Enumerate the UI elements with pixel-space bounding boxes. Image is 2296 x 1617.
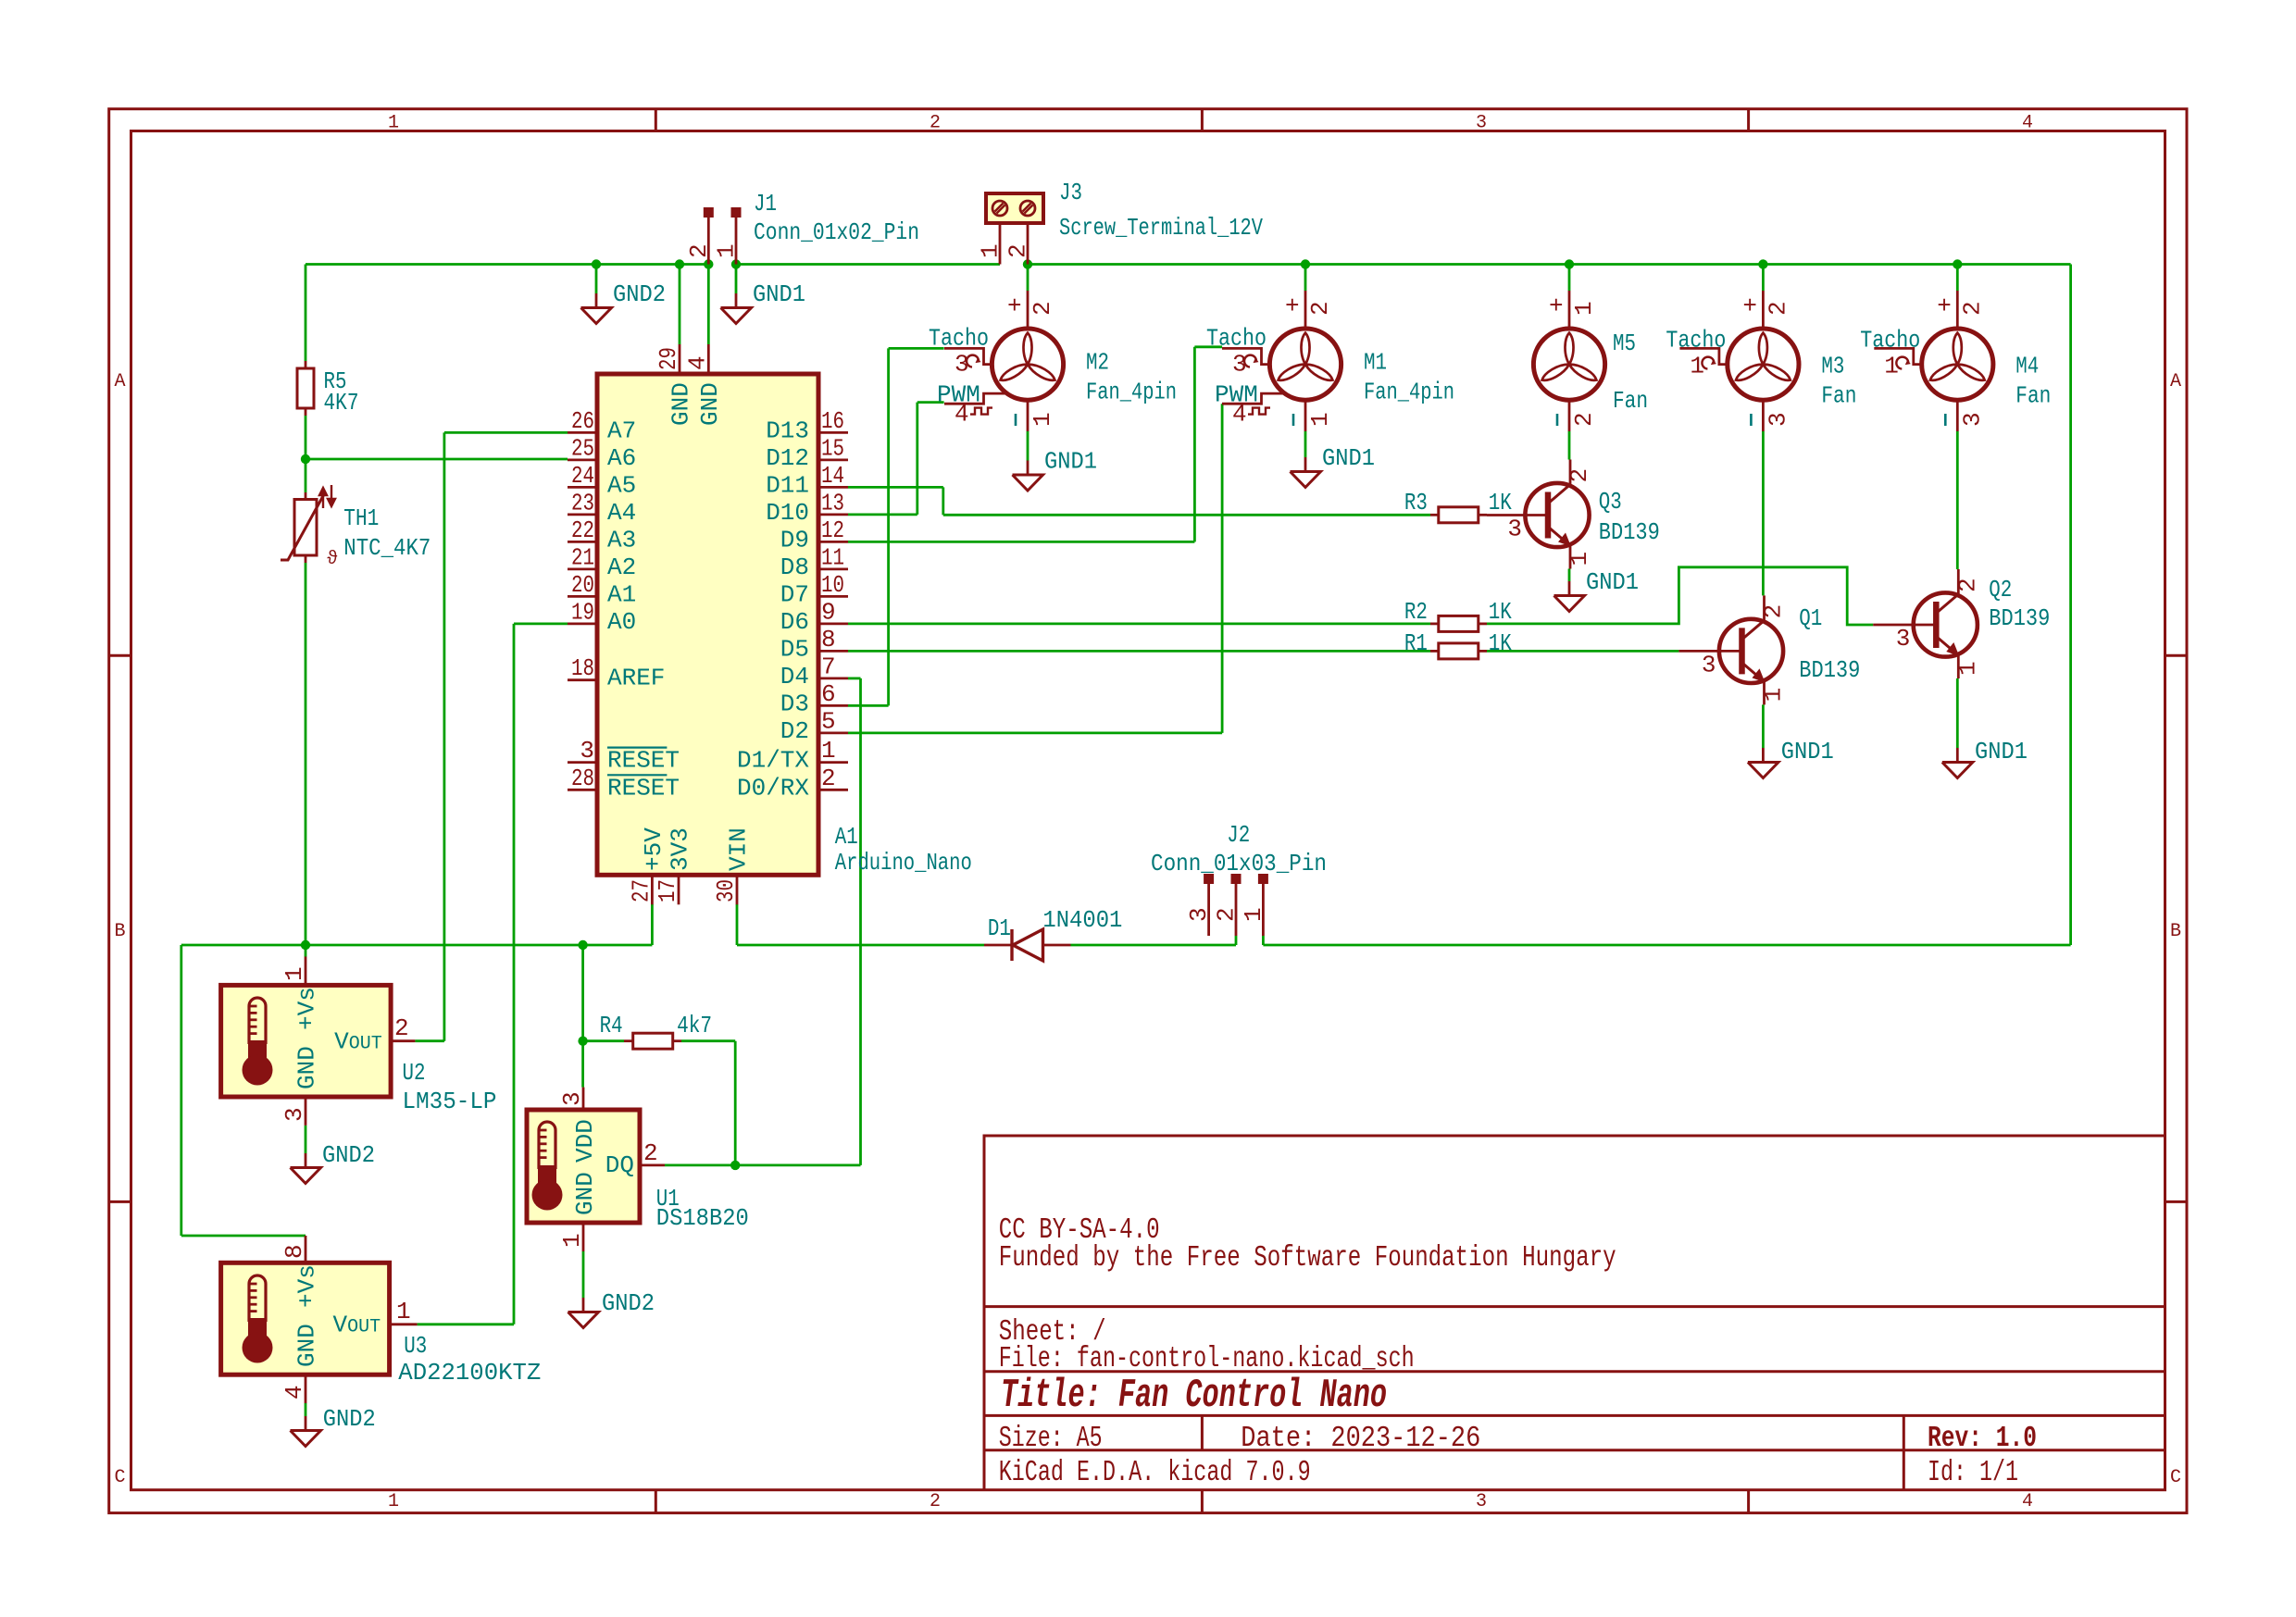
wire Q3 emitter to GND1 bbox=[1568, 569, 1571, 582]
svg-text:28: 28 bbox=[571, 765, 594, 792]
wire D6 to R2 bbox=[848, 623, 1430, 626]
svg-text:BD139: BD139 bbox=[1799, 656, 1860, 684]
power symbol GND1 bbox=[1568, 581, 1571, 596]
wire bus to fan M1 plus bbox=[1304, 265, 1307, 292]
wire U2 +Vs stub bbox=[305, 945, 307, 957]
wire D1 to VIN bbox=[737, 944, 984, 947]
arduino pin 18 AREF bbox=[568, 678, 597, 681]
junction GND1 bus at J1 pin1 bbox=[731, 259, 741, 268]
wire bus to Arduino pin29 bbox=[679, 265, 681, 345]
sheet border outer frame bbox=[109, 109, 2187, 1513]
svg-text:13: 13 bbox=[821, 489, 844, 516]
fan M1 tacho pin bbox=[1222, 348, 1269, 364]
fan M2 tacho pin bbox=[944, 348, 992, 364]
arduino pin 4 GND bbox=[707, 344, 710, 374]
resistor R2 1K bbox=[1430, 623, 1439, 626]
svg-text:DS18B20: DS18B20 bbox=[656, 1204, 749, 1232]
svg-text:1: 1 bbox=[388, 1491, 399, 1512]
svg-text:A4: A4 bbox=[607, 499, 636, 527]
svg-text:M3: M3 bbox=[1821, 353, 1844, 380]
svg-text:3: 3 bbox=[1896, 625, 1911, 653]
svg-text:A1: A1 bbox=[607, 580, 636, 608]
wire bus to fan M4 plus bbox=[1956, 265, 1959, 292]
svg-text:GND2: GND2 bbox=[323, 1405, 376, 1433]
sensor U1 thermometer icon bbox=[539, 1122, 555, 1169]
svg-text:D8: D8 bbox=[780, 554, 809, 581]
resistor R5 bbox=[305, 361, 307, 368]
svg-text:8: 8 bbox=[281, 1244, 308, 1259]
wire Q2 emitter to GND1 bbox=[1956, 678, 1959, 748]
power symbol GND1 bbox=[1956, 748, 1959, 763]
svg-text:A6: A6 bbox=[607, 444, 636, 472]
svg-text:GND1: GND1 bbox=[1586, 568, 1639, 596]
wire GND1 drop from bus bbox=[735, 265, 738, 294]
svg-text:3: 3 bbox=[1702, 651, 1716, 678]
sensor U2 LM35-LP body bbox=[221, 985, 392, 1097]
junction 12V bus at M3 bbox=[1758, 259, 1767, 268]
wire D11 to R3 bbox=[848, 486, 943, 489]
junction +5V at R4 bbox=[578, 940, 587, 950]
svg-text:J1: J1 bbox=[754, 190, 777, 218]
svg-text:7: 7 bbox=[821, 653, 836, 680]
svg-text:16: 16 bbox=[821, 407, 844, 435]
svg-text:2: 2 bbox=[1958, 301, 1986, 316]
svg-text:1: 1 bbox=[388, 113, 399, 134]
svg-text:+: + bbox=[1742, 292, 1757, 320]
svg-text:1: 1 bbox=[821, 737, 836, 765]
svg-text:+: + bbox=[1007, 292, 1022, 320]
svg-text:A2: A2 bbox=[607, 554, 636, 581]
svg-text:Fan_4pin: Fan_4pin bbox=[1364, 379, 1454, 406]
wire U3 VOUT to A0 bbox=[418, 1323, 514, 1325]
arduino pin 3 RESET bbox=[568, 761, 597, 764]
svg-text:ϑ: ϑ bbox=[327, 549, 338, 570]
svg-text:GND: GND bbox=[696, 382, 724, 426]
svg-text:21: 21 bbox=[571, 543, 594, 571]
wire M5 minus to Q3 collector bbox=[1568, 431, 1571, 460]
svg-text:1K: 1K bbox=[1489, 629, 1512, 657]
svg-text:2: 2 bbox=[394, 1014, 409, 1042]
junction 12V bus at M1 bbox=[1301, 259, 1310, 268]
svg-text:D12: D12 bbox=[766, 444, 809, 472]
svg-text:+: + bbox=[1285, 292, 1300, 320]
title block frame bbox=[984, 1136, 2165, 1490]
wire D3 to M2 Tacho bbox=[848, 704, 889, 707]
svg-text:Size: A5: Size: A5 bbox=[999, 1423, 1103, 1455]
svg-text:3: 3 bbox=[281, 1107, 308, 1122]
wire R4 right to DQ bbox=[681, 1039, 735, 1042]
svg-text:File: fan-control-nano.kicad_s: File: fan-control-nano.kicad_sch bbox=[999, 1343, 1415, 1375]
power symbol GND1 bbox=[735, 293, 738, 308]
svg-text:VIN: VIN bbox=[725, 827, 753, 871]
arduino pin 6 D3 bbox=[818, 704, 848, 707]
wire M1 minus to GND1 bbox=[1304, 431, 1307, 457]
svg-text:Fan_4pin: Fan_4pin bbox=[1086, 379, 1177, 406]
fan M1 pwm pin bbox=[1222, 393, 1285, 404]
resistor R4 4k7 bbox=[624, 1039, 632, 1042]
fan M3 tacho pin bbox=[1679, 348, 1727, 364]
svg-text:14: 14 bbox=[821, 462, 844, 490]
wire GND1 bus segment bbox=[736, 263, 1000, 266]
svg-text:2: 2 bbox=[821, 765, 836, 792]
svg-text:NTC_4K7: NTC_4K7 bbox=[343, 534, 430, 562]
power symbol GND1 bbox=[1027, 461, 1029, 476]
sensor U3 AD22100KTZ body bbox=[221, 1263, 390, 1374]
svg-text:J2: J2 bbox=[1227, 821, 1250, 849]
wire node to A6 bbox=[306, 458, 568, 461]
thermistor TH1 bbox=[305, 492, 307, 500]
junction DQ net bbox=[730, 1161, 740, 1170]
svg-text:U2: U2 bbox=[403, 1059, 426, 1087]
arduino pin 5 D2 bbox=[818, 732, 848, 735]
svg-text:B: B bbox=[2170, 921, 2181, 942]
wire U3 GND to GND2 bbox=[305, 1403, 307, 1416]
svg-text:1: 1 bbox=[558, 1233, 586, 1248]
wire D5 to R1 bbox=[848, 650, 1430, 653]
resistor R1 1K bbox=[1430, 650, 1439, 653]
svg-text:25: 25 bbox=[571, 434, 594, 462]
fan M4 tacho pin bbox=[1874, 348, 1921, 364]
junction GND2 bus at J1 pin2 bbox=[704, 259, 713, 268]
wire M2 minus to GND1 bbox=[1027, 431, 1029, 461]
svg-text:12: 12 bbox=[821, 516, 844, 544]
svg-text:Title: Fan Control Nano: Title: Fan Control Nano bbox=[1001, 1373, 1387, 1419]
connector J2 bbox=[1204, 874, 1214, 884]
svg-text:1: 1 bbox=[1953, 661, 1981, 676]
svg-text:M2: M2 bbox=[1086, 349, 1109, 377]
power symbol GND1 bbox=[1304, 457, 1307, 472]
svg-text:24: 24 bbox=[571, 462, 594, 490]
svg-text:GND2: GND2 bbox=[613, 280, 666, 308]
svg-text:Tacho: Tacho bbox=[1860, 327, 1920, 354]
svg-text:2: 2 bbox=[643, 1139, 658, 1167]
svg-text:1: 1 bbox=[1240, 907, 1267, 922]
fan M5 Fan bbox=[1533, 329, 1604, 400]
svg-text:Screw_Terminal_12V: Screw_Terminal_12V bbox=[1059, 214, 1263, 242]
svg-text:GND: GND bbox=[668, 382, 695, 426]
svg-text:A: A bbox=[2170, 371, 2181, 392]
svg-text:M1: M1 bbox=[1364, 349, 1387, 377]
svg-text:30: 30 bbox=[712, 879, 740, 902]
junction 12V bus at J3 pin2 bbox=[1023, 259, 1032, 268]
svg-text:Rev: 1.0: Rev: 1.0 bbox=[1928, 1423, 2037, 1455]
svg-text:8: 8 bbox=[821, 626, 836, 653]
svg-text:GND: GND bbox=[293, 1046, 321, 1089]
svg-text:3: 3 bbox=[1507, 516, 1522, 543]
svg-text:Fan: Fan bbox=[1613, 387, 1648, 415]
svg-text:11: 11 bbox=[821, 543, 844, 571]
svg-text:Id: 1/1: Id: 1/1 bbox=[1928, 1457, 2018, 1489]
power symbol GND1 bbox=[1762, 748, 1765, 763]
svg-text:R2: R2 bbox=[1404, 598, 1428, 626]
svg-text:BD139: BD139 bbox=[1599, 518, 1660, 546]
svg-text:Q2: Q2 bbox=[1989, 576, 2012, 603]
svg-text:1: 1 bbox=[1566, 552, 1593, 566]
svg-text:D2: D2 bbox=[780, 717, 809, 745]
wire R1 to Q1 base bbox=[1487, 650, 1678, 653]
wire bus to fan M5 plus bbox=[1568, 265, 1571, 292]
svg-text:2: 2 bbox=[1213, 907, 1241, 922]
svg-text:2: 2 bbox=[1764, 301, 1791, 316]
svg-text:Fan: Fan bbox=[1821, 382, 1856, 410]
svg-text:D1: D1 bbox=[988, 914, 1011, 942]
junction GND2 bus at GND2 symbol bbox=[592, 259, 601, 268]
junction GND2 bus at pin29 bbox=[675, 259, 684, 268]
svg-text:D3: D3 bbox=[780, 690, 809, 717]
arduino pin 28 RESET bbox=[568, 789, 597, 791]
svg-text:DQ: DQ bbox=[605, 1151, 634, 1179]
arduino pin 7 D4 bbox=[818, 678, 848, 680]
arduino pin 29 GND bbox=[679, 344, 681, 374]
junction 12V bus at M5 bbox=[1565, 259, 1574, 268]
arduino pin 10 D7 bbox=[818, 595, 848, 598]
svg-text:D7: D7 bbox=[780, 580, 809, 608]
wire +5V to U1 VDD bbox=[581, 1041, 584, 1088]
power symbol GND2 bbox=[305, 1153, 307, 1168]
svg-text:9: 9 bbox=[821, 598, 836, 626]
svg-text:3: 3 bbox=[558, 1091, 586, 1106]
svg-text:6: 6 bbox=[821, 680, 836, 708]
svg-text:+: + bbox=[1937, 292, 1952, 320]
diode D1 1N4001 bbox=[984, 944, 1012, 947]
svg-text:4: 4 bbox=[683, 355, 711, 370]
screw terminal J3 bbox=[986, 193, 1043, 223]
power symbol GND2 bbox=[595, 293, 598, 308]
svg-text:15: 15 bbox=[821, 434, 844, 462]
wire +5V to U3 bbox=[180, 945, 182, 1236]
svg-text:4k7: 4k7 bbox=[677, 1012, 712, 1039]
svg-text:2: 2 bbox=[1760, 604, 1788, 619]
svg-text:GND1: GND1 bbox=[1044, 448, 1097, 476]
wire M3 minus to Q1 collector bbox=[1762, 431, 1765, 595]
svg-text:D6: D6 bbox=[780, 608, 809, 636]
wire M4 minus to Q2 collector bbox=[1956, 431, 1959, 569]
svg-text:Tacho: Tacho bbox=[1666, 327, 1726, 354]
arduino pin 22 A3 bbox=[568, 541, 597, 543]
arduino pin 25 A6 bbox=[568, 458, 597, 461]
svg-text:D0/RX: D0/RX bbox=[737, 774, 809, 802]
svg-text:17: 17 bbox=[654, 879, 681, 902]
svg-text:4K7: 4K7 bbox=[324, 389, 359, 417]
svg-text:3: 3 bbox=[1185, 907, 1213, 922]
arduino pin 13 D10 bbox=[818, 514, 848, 516]
svg-text:GND1: GND1 bbox=[753, 280, 805, 308]
svg-text:Date: 2023-12-26: Date: 2023-12-26 bbox=[1241, 1423, 1480, 1455]
wire D10 to M2 PWM bbox=[848, 514, 917, 516]
svg-text:10: 10 bbox=[821, 571, 844, 599]
arduino pin 23 A4 bbox=[568, 514, 597, 516]
wire D4 to U1 DQ bbox=[848, 678, 861, 680]
svg-text:3: 3 bbox=[1958, 412, 1986, 427]
svg-text:GND1: GND1 bbox=[1322, 444, 1375, 472]
wire R4 left bbox=[583, 1039, 624, 1042]
svg-text:4: 4 bbox=[2022, 1491, 2033, 1512]
svg-text:R4: R4 bbox=[600, 1012, 623, 1039]
svg-text:GND: GND bbox=[293, 1324, 321, 1367]
arduino pin 12 D9 bbox=[818, 541, 848, 543]
fan M1 Fan_4pin bbox=[1269, 329, 1341, 400]
svg-text:Tacho: Tacho bbox=[929, 325, 989, 353]
svg-text:20: 20 bbox=[571, 571, 594, 599]
fan M2 pwm pin bbox=[944, 393, 1007, 404]
wire GND2 drop from bus bbox=[595, 265, 598, 294]
svg-text:2: 2 bbox=[1306, 301, 1334, 316]
svg-text:3: 3 bbox=[1476, 1491, 1487, 1512]
svg-text:3: 3 bbox=[1476, 113, 1487, 134]
svg-text:LM35-LP: LM35-LP bbox=[403, 1088, 497, 1115]
transistor Q1 BD139 bbox=[1763, 595, 1766, 620]
wire Q1 emitter to GND1 bbox=[1762, 704, 1765, 748]
svg-text:2: 2 bbox=[1029, 301, 1056, 316]
sheet border inner frame bbox=[131, 131, 2165, 1490]
svg-text:AREF: AREF bbox=[607, 665, 665, 692]
wire U2 GND to GND2 bbox=[305, 1126, 307, 1153]
svg-text:+Vs: +Vs bbox=[293, 987, 321, 1030]
sensor U2 pins bbox=[305, 957, 307, 986]
wire 12V bus segment bbox=[1028, 263, 2071, 266]
svg-text:VDD: VDD bbox=[571, 1119, 599, 1163]
arduino pin 9 D6 bbox=[818, 623, 848, 626]
svg-text:M4: M4 bbox=[2015, 353, 2039, 380]
svg-text:22: 22 bbox=[571, 516, 594, 544]
svg-text:Conn_01x02_Pin: Conn_01x02_Pin bbox=[754, 218, 919, 246]
svg-text:C: C bbox=[114, 1467, 125, 1488]
sensor U2 thermometer icon bbox=[249, 998, 266, 1044]
junction node A6 divider bbox=[301, 454, 310, 464]
wire J2 pin2 to D1 bbox=[1235, 936, 1238, 945]
wire TH1 to +5V rail bbox=[305, 563, 307, 945]
wire 12V to J2 pin1 bbox=[1263, 944, 2070, 947]
wire R5 top bbox=[305, 265, 307, 362]
sensor U3 thermometer icon bbox=[249, 1275, 266, 1322]
svg-text:Arduino_Nano: Arduino_Nano bbox=[835, 849, 972, 877]
sensor U3 pins bbox=[305, 1236, 307, 1263]
wire R5 bottom to node bbox=[305, 416, 307, 459]
svg-text:2: 2 bbox=[1004, 243, 1032, 258]
svg-text:1: 1 bbox=[1306, 412, 1334, 427]
arduino U-A1 body bbox=[597, 374, 818, 875]
svg-text:26: 26 bbox=[571, 407, 594, 435]
svg-text:2: 2 bbox=[685, 243, 713, 258]
svg-text:Conn_01x03_Pin: Conn_01x03_Pin bbox=[1151, 850, 1327, 877]
svg-text:D1/TX: D1/TX bbox=[737, 747, 809, 775]
transistor Q3 BD139 bbox=[1569, 460, 1572, 485]
svg-text:+: + bbox=[1549, 292, 1564, 320]
svg-text:1: 1 bbox=[977, 243, 1004, 258]
wire R4 junction drop bbox=[581, 945, 584, 1041]
svg-text:2: 2 bbox=[1566, 468, 1593, 483]
svg-text:AD22100KTZ: AD22100KTZ bbox=[398, 1359, 541, 1387]
svg-text:+5V: +5V bbox=[640, 827, 668, 871]
svg-text:1: 1 bbox=[396, 1298, 411, 1325]
svg-text:Funded by the Free Software Fo: Funded by the Free Software Foundation H… bbox=[999, 1242, 1616, 1275]
junction 12V bus at M4 bbox=[1953, 259, 1962, 268]
wire D2 to M1 PWM bbox=[848, 732, 1222, 735]
svg-text:KiCad E.D.A. kicad 7.0.9: KiCad E.D.A. kicad 7.0.9 bbox=[999, 1457, 1311, 1489]
svg-text:D5: D5 bbox=[780, 635, 809, 663]
wire bus to Arduino pin4 bbox=[707, 265, 710, 345]
svg-text:2: 2 bbox=[930, 1491, 941, 1512]
svg-text:4: 4 bbox=[281, 1385, 308, 1399]
svg-text:Q3: Q3 bbox=[1599, 488, 1622, 516]
svg-text:29: 29 bbox=[655, 347, 682, 370]
wire right 12V riser bbox=[2069, 265, 2072, 946]
svg-text:GND: GND bbox=[571, 1172, 599, 1215]
svg-text:18: 18 bbox=[571, 654, 594, 682]
sensor U1 DS18B20 body bbox=[527, 1110, 640, 1223]
power symbol GND2 bbox=[582, 1298, 585, 1312]
svg-text:1: 1 bbox=[281, 966, 308, 981]
wire 12V-GND2 bus segment bbox=[306, 263, 708, 266]
arduino pin 11 D8 bbox=[818, 568, 848, 571]
fan M2 Fan_4pin bbox=[992, 329, 1063, 400]
svg-text:D9: D9 bbox=[780, 526, 809, 554]
svg-text:23: 23 bbox=[571, 489, 594, 516]
svg-text:1K: 1K bbox=[1489, 489, 1512, 516]
svg-text:RESET: RESET bbox=[607, 774, 680, 802]
svg-text:GND1: GND1 bbox=[1781, 738, 1834, 765]
arduino pin 27 +5V bbox=[651, 875, 654, 904]
svg-text:D10: D10 bbox=[766, 499, 809, 527]
wire J3 pin2 to fan M2 plus bbox=[1027, 265, 1029, 292]
power symbol GND2 bbox=[305, 1416, 307, 1431]
svg-text:R1: R1 bbox=[1404, 629, 1428, 657]
svg-text:U3: U3 bbox=[404, 1332, 427, 1360]
transistor Q2 BD139 bbox=[1957, 569, 1960, 594]
junction +5V at U2 bbox=[301, 940, 310, 950]
wire U2 VOUT to A7 bbox=[415, 1039, 444, 1042]
wire U1 GND to GND2 bbox=[582, 1251, 585, 1298]
svg-text:Fan: Fan bbox=[2015, 382, 2051, 410]
arduino pin 30 VIN bbox=[736, 875, 739, 904]
sensor U1 pins bbox=[582, 1088, 585, 1110]
svg-text:2: 2 bbox=[1570, 412, 1598, 427]
svg-text:A3: A3 bbox=[607, 526, 636, 554]
arduino pin 2 D0/RX bbox=[818, 789, 848, 791]
arduino pin 16 D13 bbox=[818, 431, 848, 434]
svg-text:A0: A0 bbox=[607, 608, 636, 636]
svg-text:4: 4 bbox=[2022, 113, 2033, 134]
svg-text:3: 3 bbox=[1764, 412, 1791, 427]
svg-text:1: 1 bbox=[713, 243, 741, 258]
svg-text:2: 2 bbox=[930, 113, 941, 134]
arduino pin 24 A5 bbox=[568, 486, 597, 489]
svg-text:3: 3 bbox=[580, 737, 594, 765]
svg-text:27: 27 bbox=[627, 879, 655, 902]
resistor R3 1K bbox=[1430, 514, 1439, 516]
svg-text:Tacho: Tacho bbox=[1206, 325, 1267, 353]
fan M3 Fan bbox=[1728, 329, 1799, 400]
wire bus to fan M3 plus bbox=[1762, 265, 1765, 292]
wire D9 to M1 Tacho bbox=[848, 541, 1194, 543]
svg-text:A5: A5 bbox=[607, 471, 636, 499]
svg-text:Q1: Q1 bbox=[1799, 604, 1822, 632]
row tick marks bbox=[109, 654, 131, 657]
svg-text:19: 19 bbox=[571, 598, 594, 626]
svg-text:GND2: GND2 bbox=[602, 1289, 655, 1317]
arduino pin 20 A1 bbox=[568, 595, 597, 598]
connector J1 bbox=[704, 207, 714, 218]
svg-text:M5: M5 bbox=[1613, 330, 1636, 357]
svg-text:A1: A1 bbox=[835, 823, 858, 851]
svg-text:4: 4 bbox=[955, 401, 969, 429]
svg-text:GND2: GND2 bbox=[322, 1141, 375, 1169]
arduino pin 19 A0 bbox=[568, 623, 597, 626]
svg-text:D4: D4 bbox=[780, 663, 809, 690]
arduino pin 17 3V3 bbox=[678, 875, 680, 904]
fan M4 Fan bbox=[1922, 329, 1993, 400]
wire +5V rail bbox=[651, 904, 654, 945]
